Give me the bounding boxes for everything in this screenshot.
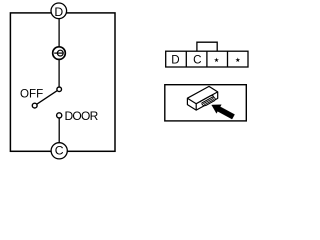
connector pin table lock tab <box>197 42 217 51</box>
wire from bulb to switch pivot <box>58 60 60 88</box>
svg-text:C: C <box>193 53 201 66</box>
bulb (interior lamp) <box>53 47 66 60</box>
DOOR contact <box>57 113 62 118</box>
connector illustration box <box>165 85 247 121</box>
pin star 2 <box>235 58 240 63</box>
terminal C (circle on bottom edge) <box>51 143 67 159</box>
wire from terminal D to bulb <box>58 18 60 47</box>
wire from DOOR contact to terminal C <box>58 118 60 143</box>
svg-text:D: D <box>54 5 63 19</box>
connector body top-face inner edges <box>187 92 217 110</box>
svg-text:D: D <box>171 53 179 66</box>
pin cell divider 2 <box>206 51 208 67</box>
pin cell divider 3 <box>227 51 229 67</box>
terminal D (circle on top edge) <box>51 3 67 19</box>
svg-text:DOOR: DOOR <box>65 109 99 123</box>
switch arm (to OFF position) <box>37 91 58 105</box>
OFF contact <box>32 103 37 108</box>
connector body outline (isometric) <box>187 86 217 110</box>
connector terminal block (hatched face) <box>202 97 215 106</box>
svg-text:C: C <box>55 143 64 157</box>
pin star 1 <box>214 58 219 63</box>
wire loop (circuit rectangle) <box>10 13 115 151</box>
switch pivot contact <box>57 87 62 92</box>
arrow pointing at connector face <box>212 105 235 119</box>
connector pin table frame <box>166 51 248 67</box>
svg-text:OFF: OFF <box>20 88 43 101</box>
connector terminal block lip edge <box>200 96 214 103</box>
pin cell divider 1 <box>185 51 187 67</box>
